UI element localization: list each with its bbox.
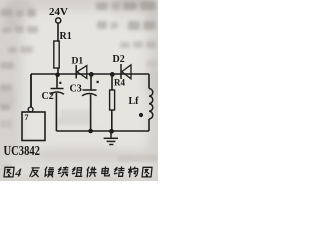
ground (104, 132, 118, 145)
caption 图4 反馈绕组供电结构图 (0, 162, 158, 184)
winding polarity dot (139, 113, 143, 117)
svg-text:4: 4 (14, 165, 22, 179)
caption char 结 (114, 166, 124, 175)
wire pin7 lead (30, 74, 32, 107)
caption char 馈 (44, 167, 53, 177)
diode D1 (76, 65, 87, 79)
svg-text:D2: D2 (113, 54, 125, 65)
svg-text:Lf: Lf (129, 96, 140, 107)
caption char 反 (30, 167, 39, 176)
svg-text:C2: C2 (42, 91, 54, 102)
wire left drop to pin7 (30, 74, 32, 107)
caption char 电 (102, 166, 111, 175)
resistor R4 (110, 90, 115, 110)
op-amp U1 UC3842 box (22, 112, 45, 141)
wire top rail (31, 73, 149, 75)
capacitor C3 (82, 90, 97, 96)
wire R4 top (111, 75, 113, 90)
svg-text:7: 7 (25, 113, 29, 122)
wire C3 top (90, 75, 92, 90)
capacitor C2 polarity + (59, 82, 61, 84)
diode D2 (121, 64, 131, 79)
terminal 24V (56, 18, 61, 23)
lighter paper area behind circuit (22, 10, 148, 150)
svg-text:UC3842: UC3842 (4, 143, 40, 159)
node R4 junction (110, 72, 115, 77)
inductor Lf winding (149, 89, 153, 119)
label UC3842 (4, 143, 40, 159)
wire C3 bottom (90, 95, 92, 132)
wire 24V to R1 (57, 23, 59, 41)
caption char 图 (4, 167, 14, 177)
caption char 构 (128, 166, 138, 176)
wire C2 bottom (55, 93, 57, 131)
node ground junction (109, 129, 114, 134)
svg-text:C3: C3 (70, 84, 82, 95)
wire C2 top (56, 75, 58, 89)
caption char 供 (86, 167, 96, 177)
capacitor C2 (50, 89, 64, 95)
caption char 绕 (58, 166, 68, 176)
pin 7 terminal (28, 107, 33, 112)
wire bottom rail (56, 130, 149, 132)
node C3 ground junction (88, 129, 93, 134)
caption char 图 (142, 167, 152, 177)
svg-text:D1: D1 (72, 56, 84, 67)
wire R4 bottom (111, 110, 113, 132)
wire winding to rail (148, 119, 150, 131)
node D1 cathode junction (89, 72, 94, 77)
capacitor C3 polarity + (97, 81, 99, 83)
svg-text:R4: R4 (114, 78, 125, 88)
resistor R1 (54, 41, 59, 68)
caption char 组 (72, 167, 83, 176)
svg-text:R1: R1 (60, 31, 72, 42)
node VCC junction (55, 73, 60, 78)
svg-text:24V: 24V (49, 6, 68, 18)
wire right drop (148, 74, 150, 89)
wire R1 to node (57, 68, 59, 74)
bleed-through smudges (0, 9, 13, 16)
